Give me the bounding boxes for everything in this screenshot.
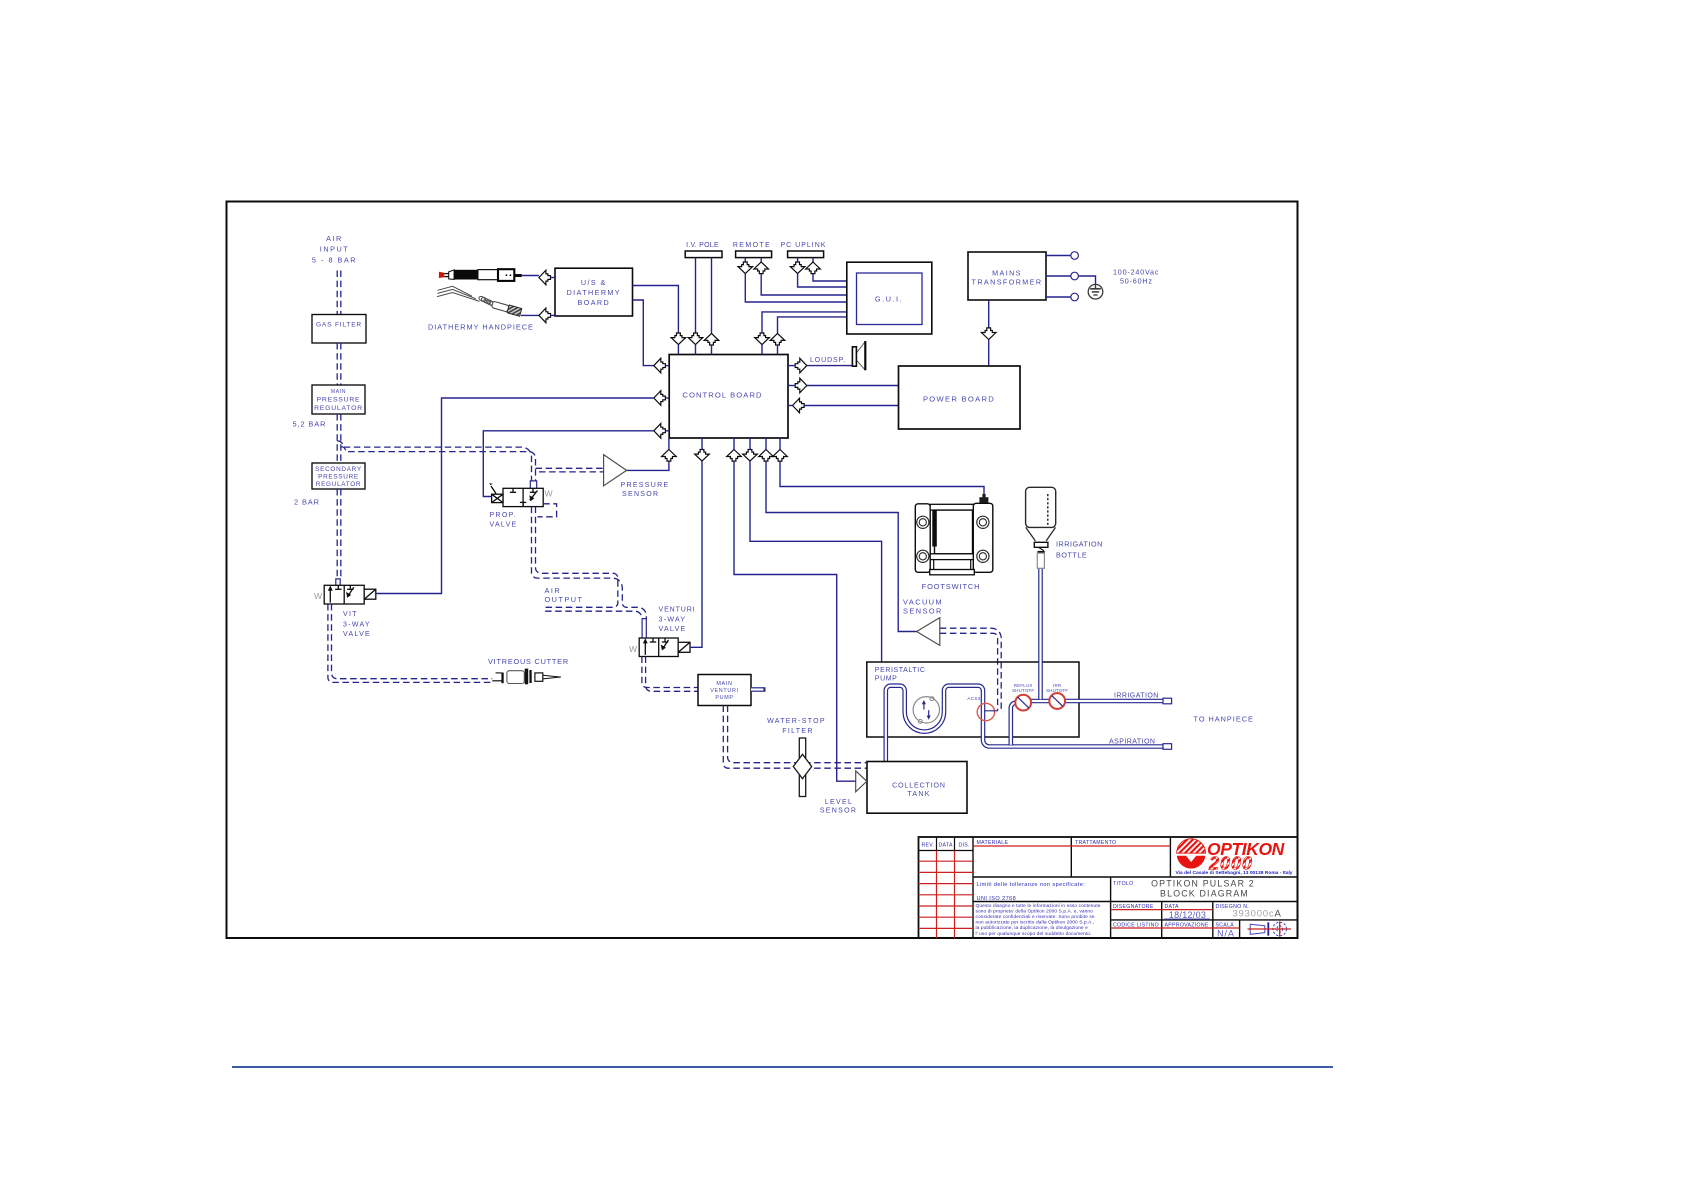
svg-text:SENSOR: SENSOR [622, 491, 659, 498]
main pressure regulator [312, 385, 365, 414]
svg-text:TANK: TANK [907, 791, 930, 798]
svg-text:LOUDSP.: LOUDSP. [810, 357, 846, 364]
wire REMOTE pair to GUI [745, 274, 847, 302]
svg-text:PC UPLINK: PC UPLINK [781, 242, 827, 249]
venturi valve port stub [642, 619, 646, 638]
vacuum sensor dashed pair [940, 628, 1001, 711]
loudspeaker LOUDSP. [807, 365, 853, 367]
svg-text:GAS FILTER: GAS FILTER [316, 322, 362, 329]
wire transformer to power board [988, 300, 990, 328]
svg-text:SENSOR: SENSOR [903, 607, 943, 616]
projection symbol [1250, 924, 1265, 934]
svg-text:APPROVAZIONE: APPROVAZIONE [1165, 922, 1209, 928]
svg-text:SHUTOFF: SHUTOFF [1046, 688, 1068, 693]
svg-text:PROP.: PROP. [490, 512, 517, 519]
wire peristaltic pump motor [750, 461, 882, 662]
wire air output run (dashed pair) [545, 611, 642, 618]
vitreous cutter icon [492, 669, 561, 685]
svg-text:considerate confidenziali e ri: considerate confidenziali e riservate. S… [976, 914, 1095, 920]
svg-text:DIS.: DIS. [959, 843, 970, 849]
wire control board pair to GUI [762, 312, 847, 334]
water-stop filter [799, 738, 805, 797]
svg-text:3-WAY: 3-WAY [659, 616, 687, 623]
svg-text:Questo disegno e tutte le info: Questo disegno e tutte le informazioni i… [976, 903, 1101, 909]
svg-text:SECONDARY: SECONDARY [315, 466, 362, 473]
wire vacuum sensor [766, 461, 917, 631]
svg-text:MAIN: MAIN [331, 389, 346, 395]
svg-text:WATER-STOP: WATER-STOP [767, 718, 826, 725]
svg-text:N/A: N/A [1217, 929, 1235, 939]
svg-text:VITREOUS CUTTER: VITREOUS CUTTER [488, 657, 569, 666]
svg-text:IRRIGATION: IRRIGATION [1056, 539, 1103, 548]
footer rule [232, 1066, 1333, 1068]
svg-text:la pubblicazione, la duplicazi: la pubblicazione, la duplicazione, la di… [976, 925, 1089, 931]
svg-text:PRESSURE: PRESSURE [621, 482, 670, 489]
control board bottom arrows [662, 450, 677, 462]
wire prop valve control [483, 431, 654, 497]
svg-text:VALVE: VALVE [343, 631, 371, 638]
svg-text:COLLECTION: COLLECTION [892, 783, 946, 790]
svg-text:VALVE: VALVE [659, 626, 687, 633]
svg-text:G.U.I.: G.U.I. [875, 295, 903, 304]
tube irrigation run [1016, 699, 1164, 704]
mains input terminals [1046, 255, 1071, 257]
diathermy handpiece 1 (pencil) [439, 269, 522, 281]
footswitch icon [915, 494, 993, 575]
svg-text:INPUT: INPUT [320, 245, 349, 254]
svg-text:FILTER: FILTER [782, 728, 813, 735]
sensor PRESSURE (dashed pair input) [536, 467, 604, 469]
gas filter GF [312, 315, 366, 344]
svg-text:VIT: VIT [343, 611, 358, 618]
svg-text:VALVE: VALVE [490, 521, 518, 528]
wire prop valve to air output (dashed pair) [532, 507, 647, 619]
wire handpiece2 to U/S board [521, 314, 539, 316]
svg-text:UNI ISO 2768: UNI ISO 2768 [977, 896, 1017, 902]
valve REFLUX SHUTOFF [1015, 695, 1031, 711]
svg-text:REMOTE: REMOTE [733, 242, 771, 249]
svg-text:3-WAY: 3-WAY [343, 621, 371, 628]
wire handpiece1 to U/S board [522, 275, 539, 277]
materiale / trattamento cells [1070, 837, 1072, 877]
svg-text:2 BAR: 2 BAR [294, 498, 320, 507]
control board top arrows [671, 333, 686, 345]
valve PROP. with port stub [530, 481, 536, 488]
venturi pump exhaust stub [751, 687, 766, 692]
connector arrows on U/S board [539, 270, 551, 285]
revision table red grid [919, 851, 974, 939]
wire PC UPLINK pair to GUI [798, 274, 847, 287]
wires IV pole to control board [695, 258, 697, 334]
svg-text:DIATHERMY: DIATHERMY [567, 288, 621, 297]
svg-text:l' uso per qualunque scopo del: l' uso per qualunque scopo del suddetto … [976, 931, 1092, 937]
tube main aspiration run [886, 686, 1163, 762]
valve IRR SHUTOFF [1049, 693, 1065, 709]
sensor LEVEL [856, 771, 867, 792]
svg-text:TRANSFORMER: TRANSFORMER [972, 278, 1043, 287]
svg-text:SHUTOFF: SHUTOFF [1012, 688, 1034, 693]
svg-text:MAIN: MAIN [716, 681, 732, 687]
svg-text:PUMP: PUMP [875, 676, 898, 683]
diathermy handpiece 2 (cable) [437, 286, 496, 307]
svg-text:REGULATOR: REGULATOR [314, 405, 363, 412]
secondary pressure regulator [312, 463, 365, 489]
svg-text:non autorizzate per iscritto d: non autorizzate per iscritto dalla Optik… [976, 920, 1095, 926]
svg-text:Limiti delle tolleranze non sp: Limiti delle tolleranze non specificate: [977, 882, 1086, 888]
wire pressure sensor to control board [627, 461, 669, 470]
svg-text:AIR: AIR [326, 234, 343, 243]
svg-text:BLOCK DIAGRAM: BLOCK DIAGRAM [1160, 889, 1249, 899]
wire U/S board to control board left arrow [633, 300, 654, 366]
revision table black verticals [972, 837, 974, 938]
svg-text:TRATTAMENTO: TRATTAMENTO [1075, 840, 1116, 846]
codice / approvazione / scala row [1239, 920, 1241, 938]
svg-text:ASPIRATION: ASPIRATION [1109, 738, 1155, 745]
svg-text:5 - 8 BAR: 5 - 8 BAR [312, 255, 357, 264]
svg-text:5,2 BAR: 5,2 BAR [293, 420, 327, 429]
svg-text:sono di proprieta' della Optik: sono di proprieta' della Optikon 2000 S.… [976, 908, 1094, 914]
svg-text:PRESSURE: PRESSURE [318, 473, 359, 480]
svg-text:SCALA: SCALA [1216, 922, 1235, 928]
svg-text:ACS3: ACS3 [967, 696, 980, 701]
valve ACS3 [977, 703, 994, 720]
wire prop valve pilot loop (dashed) [538, 504, 557, 517]
svg-text:VENTURI: VENTURI [659, 607, 696, 614]
svg-text:I.V. POLE: I.V. POLE [686, 242, 719, 249]
tube reflux branch [1011, 703, 1016, 746]
svg-text:DATA: DATA [939, 843, 954, 849]
valve VENTURI 3-WAY [639, 638, 690, 657]
wire main reg to secondary reg (dashed pair) [336, 414, 338, 463]
tube irrigation bottle line [1038, 568, 1043, 700]
transformer MAINS [968, 252, 1046, 300]
svg-text:393000cA: 393000cA [1232, 909, 1281, 920]
svg-text:REV.: REV. [922, 843, 935, 849]
wire secondary reg to vit valve (dashed pair) [336, 489, 338, 579]
svg-text:CONTROL BOARD: CONTROL BOARD [682, 391, 762, 400]
svg-text:18/12/03: 18/12/03 [1169, 910, 1206, 920]
wire venturi valve solenoid to control board [690, 461, 702, 647]
tolerances / disclaimer cells [1110, 877, 1112, 938]
drawing frame border [227, 202, 1298, 939]
wire venturi pump to water-stop filter (dashed pair) [723, 706, 867, 769]
display G.U.I. [847, 262, 932, 334]
svg-text:PERISTALTIC: PERISTALTIC [875, 667, 926, 674]
board U/S & DIATHERMY [555, 268, 633, 316]
ground (protective earth) [1088, 284, 1103, 299]
svg-text:50-60Hz: 50-60Hz [1120, 277, 1153, 286]
disegnatore / data / disegno row [1111, 919, 1298, 921]
pump PERISTALTIC box [867, 662, 1079, 737]
wire vit valve control [376, 398, 654, 594]
svg-text:BOARD: BOARD [578, 298, 611, 307]
svg-text:IRRIGATION: IRRIGATION [1114, 693, 1159, 700]
wire gas filter to main regulator (dashed pair) [336, 343, 338, 385]
svg-text:DIATHERMY HANDPIECE: DIATHERMY HANDPIECE [428, 323, 534, 332]
svg-text:REGULATOR: REGULATOR [316, 481, 361, 488]
pump MAIN VENTURI PUMP [698, 675, 751, 706]
valve VIT 3-WAY [324, 585, 376, 604]
wire level sensor control [734, 461, 856, 781]
OPTIKON logo [1175, 839, 1292, 877]
wire venturi valve to main venturi pump (dashed pair) [642, 657, 698, 688]
bottle IRRIGATION [1026, 487, 1056, 568]
vit valve port stub [336, 579, 340, 585]
svg-text:SENSOR: SENSOR [820, 808, 857, 815]
svg-text:TITOLO: TITOLO [1113, 881, 1133, 887]
svg-text:100-240Vac: 100-240Vac [1113, 268, 1159, 277]
control board left arrows [654, 358, 666, 373]
svg-text:U/S &: U/S & [581, 278, 607, 287]
svg-text:LEVEL: LEVEL [825, 799, 853, 806]
wire 5.2 bar branch to prop valve (dashed pair) [337, 441, 531, 481]
svg-text:CODICE LISTINO: CODICE LISTINO [1113, 922, 1159, 928]
svg-text:FOOTSWITCH: FOOTSWITCH [922, 582, 981, 591]
board POWER BOARD [899, 366, 1021, 429]
tank COLLECTION [867, 762, 967, 814]
wire power board to control [804, 405, 898, 407]
control board right arrows [795, 358, 807, 373]
wire U/S board to control board arrow 1 [633, 286, 679, 334]
svg-text:OPTIKON PULSAR 2: OPTIKON PULSAR 2 [1151, 879, 1255, 889]
svg-text:W: W [314, 591, 323, 601]
svg-text:PUMP: PUMP [715, 695, 733, 701]
title block outer border [919, 837, 1298, 938]
svg-text:Via del Casale di Settebagni,: Via del Casale di Settebagni, 13 00138 R… [1175, 870, 1292, 876]
titolo cell [1111, 901, 1298, 903]
wire footswitch [780, 461, 984, 494]
wire control to power board [807, 385, 899, 387]
svg-text:OUTPUT: OUTPUT [545, 595, 584, 604]
wire air input to gas filter (dashed pair) [336, 271, 338, 315]
svg-text:VENTURI: VENTURI [710, 688, 739, 694]
svg-text:MATERIALE: MATERIALE [977, 840, 1009, 846]
wire vit valve to vitreous cutter (dashed pair) [328, 604, 492, 682]
svg-text:MAINS: MAINS [992, 269, 1022, 278]
board CONTROL BOARD [669, 355, 788, 439]
pump rotor [913, 697, 939, 723]
svg-text:TO HANPIECE: TO HANPIECE [1194, 714, 1254, 723]
wire to ground [1078, 276, 1095, 284]
svg-text:W: W [545, 489, 554, 499]
svg-text:BOTTLE: BOTTLE [1056, 551, 1087, 560]
svg-text:VACUUM: VACUUM [903, 598, 943, 607]
svg-text:W: W [629, 644, 638, 654]
svg-text:POWER BOARD: POWER BOARD [923, 395, 995, 404]
svg-text:PRESSURE: PRESSURE [317, 397, 361, 404]
svg-text:AIR: AIR [545, 586, 562, 595]
